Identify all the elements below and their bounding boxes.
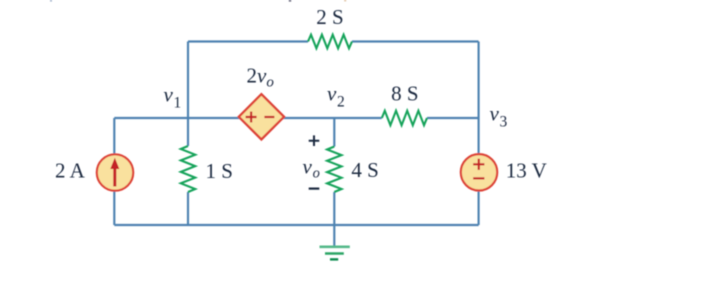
- wire: middle horizontal, node v1 to 8 S resistor: [114, 117, 382, 119]
- wire: middle horizontal, 8 S resistor to node v3: [427, 117, 479, 119]
- current source 2 A: circle body: [97, 154, 133, 190]
- dependent source 2vo: minus terminal mark: [264, 116, 274, 118]
- stray crop mark right: [344, 0, 346, 1]
- svg-text:1: 1: [174, 95, 182, 112]
- svg-text:v: v: [164, 83, 174, 107]
- svg-text:2 A: 2 A: [55, 159, 86, 183]
- label: + of vo across 4 S: [309, 135, 320, 146]
- dependent source 2vo: plus terminal mark: [246, 112, 257, 123]
- label: - of vo across 4 S: [309, 188, 320, 190]
- voltage source 13 V: plus mark: [473, 159, 484, 170]
- svg-text:2vo: 2vo: [247, 63, 275, 90]
- svg-text:13 V: 13 V: [506, 159, 547, 183]
- svg-text:4 S: 4 S: [351, 158, 378, 182]
- svg-text:o: o: [313, 166, 320, 182]
- wire: v1 vertical, top wire to 1 S resistor: [187, 42, 189, 147]
- wire: v1 vertical, 1 S resistor to bottom wire: [187, 192, 189, 225]
- svg-text:8 S: 8 S: [391, 82, 418, 106]
- voltage source 13 V: minus mark: [473, 177, 484, 179]
- svg-text:v: v: [490, 102, 500, 126]
- wire: right vertical branch through 13 V source: [478, 42, 480, 226]
- conductance 2 S zigzag: [308, 35, 352, 49]
- svg-text:v: v: [327, 82, 337, 106]
- svg-text:3: 3: [500, 114, 508, 131]
- conductance 4 S zigzag: [327, 147, 341, 193]
- wire: v2 vertical, middle wire to 4 S resistor: [333, 118, 335, 147]
- svg-text:2 S: 2 S: [316, 5, 343, 29]
- ground symbol: middle bar: [325, 252, 344, 254]
- svg-text:v: v: [303, 155, 313, 179]
- dependent source 2vo: diamond body: [239, 94, 284, 139]
- wire: top branch, node v1 riser to 2 S resistor: [188, 40, 308, 42]
- wire: bottom rail: [114, 224, 478, 226]
- conductance 1 S zigzag: [181, 146, 195, 192]
- ground symbol: bottom bar: [330, 258, 338, 260]
- stray crop mark left: [50, 0, 52, 2]
- wire: top branch, 2 S resistor to node v3 riser: [352, 40, 479, 42]
- svg-text:2: 2: [337, 94, 345, 111]
- stray crop mark center: [289, 0, 291, 2]
- conductance 8 S zigzag: [382, 111, 427, 125]
- svg-text:1 S: 1 S: [206, 159, 233, 183]
- voltage source 13 V: circle body: [461, 154, 497, 190]
- wire: v2 vertical, 4 S resistor through bottom wire to ground: [333, 192, 335, 247]
- wire: left vertical branch through 2 A source: [113, 118, 115, 225]
- ground symbol: top bar: [320, 246, 350, 249]
- current source 2 A: upward arrow: [113, 167, 116, 187]
